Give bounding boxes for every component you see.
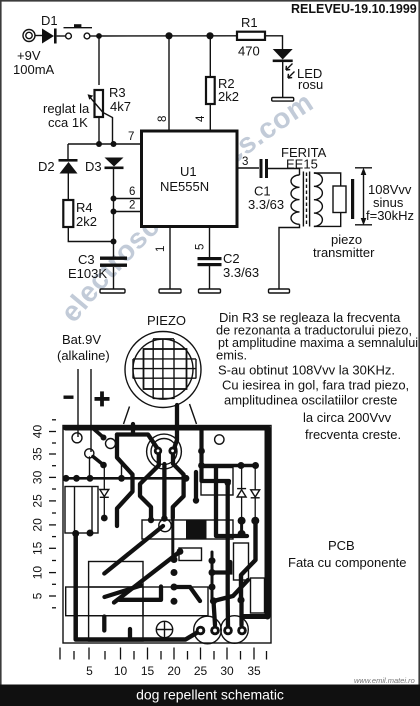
svg-text:la circa 200Vvv: la circa 200Vvv	[303, 410, 392, 425]
PCB trace col174	[173, 518, 231, 601]
svg-text:10: 10	[114, 664, 128, 678]
PCB trace top diag	[92, 428, 104, 438]
PCB dumbbell pads	[238, 517, 260, 538]
PCB trace stub low2	[128, 629, 132, 639]
wire LED to ground	[282, 62, 284, 98]
wire C2 ground	[209, 266, 211, 289]
svg-text:4: 4	[195, 115, 207, 122]
svg-text:U1: U1	[180, 164, 197, 179]
PCB trace right rail2	[205, 464, 256, 468]
svg-text:35: 35	[31, 447, 45, 461]
PCB trace v255 down	[241, 522, 256, 600]
PCB pad battery plus	[85, 449, 94, 458]
svg-text:S-au obtinut 108Vvv la 30KHz.: S-au obtinut 108Vvv la 30KHz.	[218, 363, 395, 378]
battery wire minus	[77, 369, 79, 437]
svg-text:f=30kHz: f=30kHz	[366, 208, 414, 223]
PCB component rect right2	[251, 578, 265, 613]
wire C1 to transformer	[268, 169, 300, 176]
measurement arrow 108V	[355, 168, 372, 226]
svg-text:RELEVEU-19.10.1999: RELEVEU-19.10.1999	[291, 2, 417, 16]
wire pin3	[237, 167, 259, 169]
battery wire plus	[90, 369, 92, 452]
svg-text:5: 5	[86, 664, 93, 678]
transformer TR1 primary	[291, 175, 300, 224]
bottom ruler	[60, 648, 267, 660]
svg-text:D2: D2	[38, 159, 55, 174]
PCB trace diag long2	[114, 552, 180, 603]
wire D3 down	[113, 169, 115, 257]
PCB component rect mid	[142, 519, 233, 539]
PCB mid rail trace	[66, 477, 186, 480]
PCB component rect upper right	[201, 468, 233, 496]
PCB trace top rail	[66, 426, 268, 431]
wire secondary top to piezo	[314, 173, 341, 186]
transformer core	[303, 172, 309, 227]
diode D2	[38, 159, 78, 174]
wire D2 to R4	[67, 174, 69, 201]
left ruler	[49, 420, 56, 608]
node pin2 junction	[111, 209, 117, 215]
wire pin5	[209, 227, 211, 258]
PCB component small mid	[179, 548, 202, 561]
svg-text:R1: R1	[241, 15, 258, 30]
svg-text:emis.: emis.	[216, 348, 247, 363]
PCB trace left column	[76, 534, 199, 640]
PCB pad battery minus	[72, 433, 82, 443]
PCB hole	[106, 439, 116, 449]
svg-text:+9V: +9V	[17, 48, 41, 63]
svg-text:15: 15	[31, 541, 45, 555]
PCB trace right rail	[265, 428, 271, 617]
ground LED	[272, 98, 294, 102]
node C junction pin4	[206, 32, 213, 39]
resistor R2	[206, 76, 239, 104]
svg-text:E103K: E103K	[68, 266, 107, 281]
PCB dots col174	[171, 556, 216, 605]
wire pin7 to D2	[67, 144, 69, 160]
resistor R4	[63, 200, 97, 229]
ground C3	[100, 289, 125, 293]
svg-text:1: 1	[155, 246, 167, 252]
PCB output pads	[196, 626, 247, 636]
svg-text:3: 3	[242, 156, 248, 168]
label piezo transmitter	[313, 232, 375, 260]
ground transformer	[269, 289, 290, 293]
label 108Vvv sinus f=30kHz	[366, 182, 414, 223]
PCB diode symbol D5	[237, 467, 246, 519]
PCB trace center vertical	[162, 464, 166, 518]
svg-text:3.3/63: 3.3/63	[223, 265, 259, 280]
wire secondary bottom to piezo	[314, 213, 341, 227]
PCB junction dots	[63, 435, 259, 605]
paragraph notes	[216, 310, 418, 442]
svg-text:30: 30	[31, 470, 45, 484]
label Bat.9V (alkaline)	[57, 332, 110, 363]
svg-text:dog repellent schematic: dog repellent schematic	[136, 687, 284, 703]
svg-text:3.3/63: 3.3/63	[248, 197, 284, 212]
svg-text:6: 6	[129, 186, 135, 198]
svg-text:www.emil.matei.ro: www.emil.matei.ro	[354, 676, 415, 685]
PCB piezo mount circles	[147, 434, 182, 469]
svg-text:Cu iesirea in gol, fara trad p: Cu iesirea in gol, fara trad piezo,	[222, 378, 409, 393]
capacitor C3	[68, 252, 127, 281]
PCB diode symbol D4	[100, 466, 109, 518]
svg-text:R4: R4	[76, 200, 93, 215]
minus sign	[64, 396, 74, 399]
PCB trace battery stub	[93, 457, 104, 466]
piezo disc bar	[351, 179, 354, 219]
PCB board outline	[63, 426, 271, 644]
svg-text:20: 20	[31, 518, 45, 532]
svg-text:2: 2	[129, 200, 135, 212]
svg-text:amplitudinea oscilatiilor cre: amplitudinea oscilatiilor creste	[224, 393, 397, 408]
node R3-pin7 junction	[96, 141, 102, 147]
svg-text:470: 470	[238, 44, 260, 59]
PCB trace rect to pad B	[214, 580, 249, 625]
svg-text:reglat la: reglat la	[43, 101, 90, 116]
PCB hole right	[215, 435, 224, 444]
wire pin4 lower	[209, 104, 211, 131]
svg-text:C2: C2	[223, 251, 240, 266]
svg-text:25: 25	[194, 664, 208, 678]
piezo disc grid	[133, 339, 196, 399]
PCB trace low mid	[120, 587, 162, 600]
LED arrows	[286, 64, 295, 79]
PCB wire short	[121, 461, 123, 478]
label LED rosu	[297, 66, 323, 92]
wire node A to R3	[98, 36, 100, 85]
wire C3 to ground	[113, 267, 115, 289]
svg-text:10: 10	[31, 566, 45, 580]
bottom ruler numbers	[86, 664, 261, 678]
PCB trace zigzag pad left	[140, 452, 159, 520]
svg-text:35: 35	[247, 664, 261, 678]
svg-text:(alkaline): (alkaline)	[57, 348, 110, 363]
ground pin1	[159, 289, 181, 293]
wire R3 to pin7 line	[98, 117, 100, 144]
diode D1	[41, 13, 58, 44]
wire pin 7	[68, 143, 141, 145]
PCB trace x202	[202, 430, 230, 481]
wire pin 6	[114, 198, 142, 200]
node D junction	[111, 239, 117, 245]
PCB component rect right1	[234, 543, 249, 580]
svg-text:40: 40	[31, 425, 45, 439]
PCB output pad circles	[194, 616, 249, 644]
terminal +9V	[23, 30, 35, 42]
svg-text:EE15: EE15	[286, 157, 318, 172]
svg-text:5: 5	[195, 244, 207, 250]
svg-text:Bat.9V: Bat.9V	[62, 332, 101, 347]
PCB trace zigzag pad right	[173, 452, 184, 518]
ground C2	[199, 289, 221, 293]
PCB trace low diag	[105, 586, 142, 598]
svg-text:D1: D1	[41, 13, 58, 28]
label FERITA EE15	[281, 145, 327, 172]
transformer secondary	[314, 173, 323, 226]
PCB trace v216	[216, 467, 247, 536]
svg-text:rosu: rosu	[298, 77, 323, 92]
wire pin8	[168, 36, 170, 131]
svg-text:NE555N: NE555N	[160, 179, 209, 194]
PCB rectB divider	[88, 587, 90, 616]
label +9V 100mA	[13, 48, 55, 77]
piezo transducer body	[333, 186, 346, 213]
wire pin4 upper	[209, 36, 211, 77]
plus sign	[95, 391, 110, 406]
svg-text:100mA: 100mA	[13, 62, 55, 77]
svg-text:transmitter: transmitter	[313, 245, 375, 260]
PCB piezo right lead trace	[174, 405, 178, 450]
svg-text:2k2: 2k2	[76, 214, 97, 229]
PCB component rect left	[65, 487, 98, 534]
PCB trace zigzag left	[117, 435, 133, 527]
LED D5	[273, 49, 293, 62]
node pin6 junction	[111, 196, 117, 202]
PCB piezo pads	[154, 447, 177, 455]
svg-text:5: 5	[31, 592, 45, 599]
PCB filled block	[186, 521, 207, 539]
op-amp U1 IC NE555	[142, 131, 238, 227]
diode D3	[85, 158, 124, 175]
svg-text:8: 8	[157, 116, 169, 122]
wire terminal to D1	[35, 35, 42, 37]
wire pin 2	[114, 211, 142, 213]
svg-text:Fata cu componente: Fata cu componente	[288, 555, 407, 570]
svg-text:PCB: PCB	[328, 538, 355, 553]
svg-text:30: 30	[220, 664, 234, 678]
PCB piezo left lead trace	[117, 424, 159, 451]
svg-text:pt amplitudine maxima a semna: pt amplitudine maxima a semnalului	[218, 335, 418, 350]
wire pin1	[169, 227, 171, 290]
PCB trace v227	[226, 483, 231, 626]
svg-text:cca 1K: cca 1K	[48, 115, 88, 130]
switch S1	[64, 24, 93, 39]
PCB mount hole crossed	[156, 621, 172, 637]
left ruler numbers	[31, 425, 45, 600]
potentiometer R3	[88, 85, 131, 144]
svg-text:PIEZO: PIEZO	[147, 313, 186, 328]
PCB trace pad D drop	[239, 600, 243, 625]
wire D1 to switch	[57, 35, 66, 37]
PCB trace stub low	[102, 617, 106, 631]
PCB trace diag long1	[104, 526, 163, 574]
svg-text:2k2: 2k2	[218, 89, 239, 104]
svg-text:7: 7	[128, 131, 134, 143]
svg-text:25: 25	[31, 494, 45, 508]
footer bar	[0, 685, 420, 706]
label reglat la cca 1K	[43, 101, 90, 130]
node B junction pin8	[165, 32, 172, 39]
svg-text:R3: R3	[109, 85, 126, 100]
svg-text:4k7: 4k7	[110, 99, 131, 114]
node A junction	[96, 33, 102, 39]
PCB diode symbol D6	[251, 467, 260, 519]
svg-text:15: 15	[141, 664, 155, 678]
PCB wire pad2 to rail	[89, 457, 91, 478]
wire R4 to node D	[68, 227, 113, 242]
wire R1 to LED	[265, 36, 283, 49]
piezo disc	[125, 332, 201, 408]
resistor R1	[237, 15, 265, 59]
svg-text:frecventa creste.: frecventa creste.	[305, 427, 401, 442]
node D3-pin7 junction	[111, 141, 117, 147]
PCB trace bottom right	[244, 614, 268, 619]
svg-text:D3: D3	[85, 159, 102, 174]
svg-text:C3: C3	[78, 252, 95, 267]
piezo housing funnel	[124, 404, 197, 424]
PCB trace right vertical short	[194, 472, 198, 500]
capacitor C1	[248, 159, 284, 212]
capacitor C2	[198, 251, 260, 280]
top rail wire	[99, 35, 237, 37]
wire primary to ground	[279, 224, 300, 289]
PCB component rows lower left	[66, 562, 208, 642]
svg-text:20: 20	[167, 664, 181, 678]
wire switch to node A	[90, 35, 99, 37]
